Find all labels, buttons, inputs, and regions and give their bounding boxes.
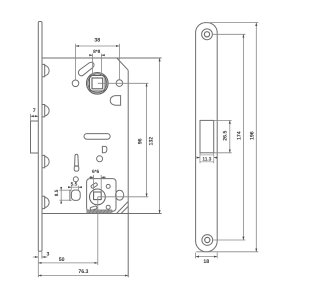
svg-text:132: 132 <box>149 137 155 146</box>
faceplate (left view front plate) <box>38 22 42 252</box>
latch bump 1 <box>42 64 49 76</box>
dim 11.3 text with box <box>200 155 214 162</box>
dim 38 line <box>76 45 120 47</box>
svg-text:76.3: 76.3 <box>78 269 88 275</box>
dim 11.3 left arrow <box>197 157 200 159</box>
svg-text:3: 3 <box>47 251 50 257</box>
dim 26.5 ext top <box>214 119 232 121</box>
dim 3 right arrow <box>42 256 48 258</box>
svg-text:8*8: 8*8 <box>93 49 101 55</box>
bottom screw hole outer <box>202 235 213 246</box>
lock body right edge + extension down to 76.3 dim <box>127 70 129 277</box>
lock body chamfer top-right <box>117 58 128 70</box>
dim 3 left arrow <box>33 256 39 258</box>
dim 7 ext left <box>30 114 32 121</box>
dim 8.5 bottom arrow <box>60 200 62 203</box>
dim 5.5 right arrow <box>79 186 82 188</box>
kidney slot <box>78 62 94 76</box>
dim 50 line <box>38 262 98 264</box>
dim 38 ext left <box>75 44 77 80</box>
latch bump 3 <box>42 155 49 167</box>
dim 3 ext left <box>37 252 39 278</box>
dim 8*8 right arrow <box>101 54 104 56</box>
spindle square hole 8*8 <box>92 78 103 89</box>
dim 11.3 right arrow <box>214 157 217 159</box>
dim 8*8 ext right <box>100 54 102 76</box>
dim 38 ext right <box>118 44 120 80</box>
strike plate bottom edge extension <box>196 251 258 253</box>
dim 3 ext right <box>41 252 43 259</box>
WC foot bar hatching <box>89 210 110 213</box>
dim 18 line <box>196 256 218 258</box>
dim 196 line <box>255 23 257 252</box>
deadbolt thrown box (protrudes left of faceplate) <box>31 121 39 153</box>
handle hub outer circle <box>87 73 109 95</box>
top screw centerline extension <box>212 33 245 35</box>
dim 6*6 left arrow <box>89 176 94 178</box>
handle hub inner ring <box>88 74 107 93</box>
dim 8.5 ext bottom <box>59 199 70 201</box>
svg-text:8.5: 8.5 <box>54 189 60 196</box>
cylinder oval hole: left strip <box>70 190 72 200</box>
dim 8.5 mid line <box>60 190 62 200</box>
dim 8.5 ext top <box>59 189 70 191</box>
body corner diagonal brace 2 <box>121 206 128 213</box>
dim 5.5 ext right <box>78 186 80 190</box>
strike plate outline <box>196 23 218 252</box>
WC small circle top-right <box>106 184 110 188</box>
hub centerline extension right <box>98 82 149 84</box>
WC rotated slot top-left <box>91 182 98 188</box>
svg-text:18: 18 <box>203 259 209 265</box>
WC hub circle <box>90 189 106 205</box>
bottom screw hole inner <box>205 237 210 242</box>
svg-text:50: 50 <box>59 257 65 263</box>
WC rotated slot bottom-left <box>90 206 97 211</box>
tapered slot (exclamation) <box>75 154 79 166</box>
dim 76.3 line <box>38 275 128 277</box>
svg-text:38: 38 <box>94 38 100 44</box>
dim 5.5 left arrow <box>68 186 71 188</box>
cutout left edge extension down <box>199 153 201 163</box>
latch bump 2 <box>42 105 49 117</box>
lock body bottom edge + extension to 132 dim <box>42 213 162 215</box>
WC centerline extension down <box>97 197 99 265</box>
svg-text:6*6: 6*6 <box>92 169 100 175</box>
dim 5.5 mid line <box>71 186 78 188</box>
hub left screw circle <box>72 80 79 87</box>
hub right screw circle <box>116 80 123 87</box>
top screw hole outer <box>202 29 213 40</box>
lock body top edge + extension line to 132 dim <box>42 57 162 59</box>
body corner diagonal brace 1 <box>117 202 129 214</box>
strike plate top edge extension <box>207 22 259 24</box>
dim 8*8 left arrow <box>89 54 92 56</box>
svg-text:11.3: 11.3 <box>202 156 211 162</box>
top screw hole inner <box>204 32 209 37</box>
WC foot bar <box>87 210 112 213</box>
dim 132 line <box>159 58 161 214</box>
dim 5.5 ext left <box>70 186 72 190</box>
dim 26.5 ext bottom <box>214 152 232 154</box>
dim 8*8 ext left <box>92 54 94 76</box>
D-shaped hole upper right <box>110 96 120 106</box>
svg-text:96: 96 <box>137 138 143 144</box>
small D hole mid <box>102 146 107 152</box>
dim 6*6 right arrow <box>101 176 106 178</box>
oval right of WC plate <box>116 190 124 200</box>
WC escutcheon plate <box>87 179 116 212</box>
dim 6*6 ext right <box>100 175 102 192</box>
dim 7 line <box>31 115 39 117</box>
handle hub rounded square <box>90 76 106 92</box>
WC square hole 6*6 <box>94 192 102 200</box>
dim 18 ext right <box>216 253 218 259</box>
tapered slot foot <box>74 166 79 171</box>
WC small circle bottom-right <box>106 205 110 209</box>
small circle below slot <box>73 177 78 182</box>
svg-text:7: 7 <box>33 108 36 114</box>
latch bump 4 <box>42 196 49 208</box>
svg-text:196: 196 <box>250 131 256 140</box>
dim 174 line <box>242 34 244 240</box>
cutout right edge extension down <box>213 153 215 163</box>
horizontal pill slot <box>84 134 110 140</box>
strike cutout rectangle <box>200 120 214 152</box>
WC centerline extension right <box>98 196 149 198</box>
dim 96 line <box>146 83 148 197</box>
svg-text:174: 174 <box>236 131 242 140</box>
small circle mid <box>97 156 103 162</box>
bottom screw centerline extension <box>213 239 246 241</box>
cylinder oval hole: rounded body <box>71 190 80 200</box>
dim 8.5 top arrow <box>60 187 62 190</box>
dim 18 ext left <box>195 253 197 259</box>
dim 6*6 ext left <box>93 175 95 192</box>
dim 26.5 line <box>229 120 231 152</box>
svg-text:26.5: 26.5 <box>222 131 228 141</box>
